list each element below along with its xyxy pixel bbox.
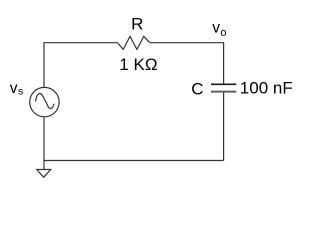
svg-text:v: v (10, 80, 18, 97)
wire left vertical below source through junction to ground (43, 117, 45, 170)
voltage source Vs circle (30, 87, 59, 116)
svg-text:s: s (18, 86, 23, 98)
svg-text:100 nF: 100 nF (240, 79, 293, 98)
svg-text:C: C (191, 80, 203, 99)
svg-text:o: o (220, 27, 226, 39)
capacitor C plates (211, 84, 236, 91)
svg-text:R: R (131, 14, 143, 33)
voltage source sine wave (36, 93, 54, 108)
wire right vertical below capacitor (223, 93, 225, 161)
wire bottom horizontal (44, 160, 224, 162)
resistor R (118, 36, 150, 49)
svg-text:v: v (212, 19, 220, 36)
wire left vertical + top horizontal to resistor (44, 43, 118, 88)
svg-text:1 KΩ: 1 KΩ (119, 55, 157, 74)
wire top horizontal from resistor + right vertical to capacitor (150, 43, 224, 84)
ground (37, 170, 51, 178)
